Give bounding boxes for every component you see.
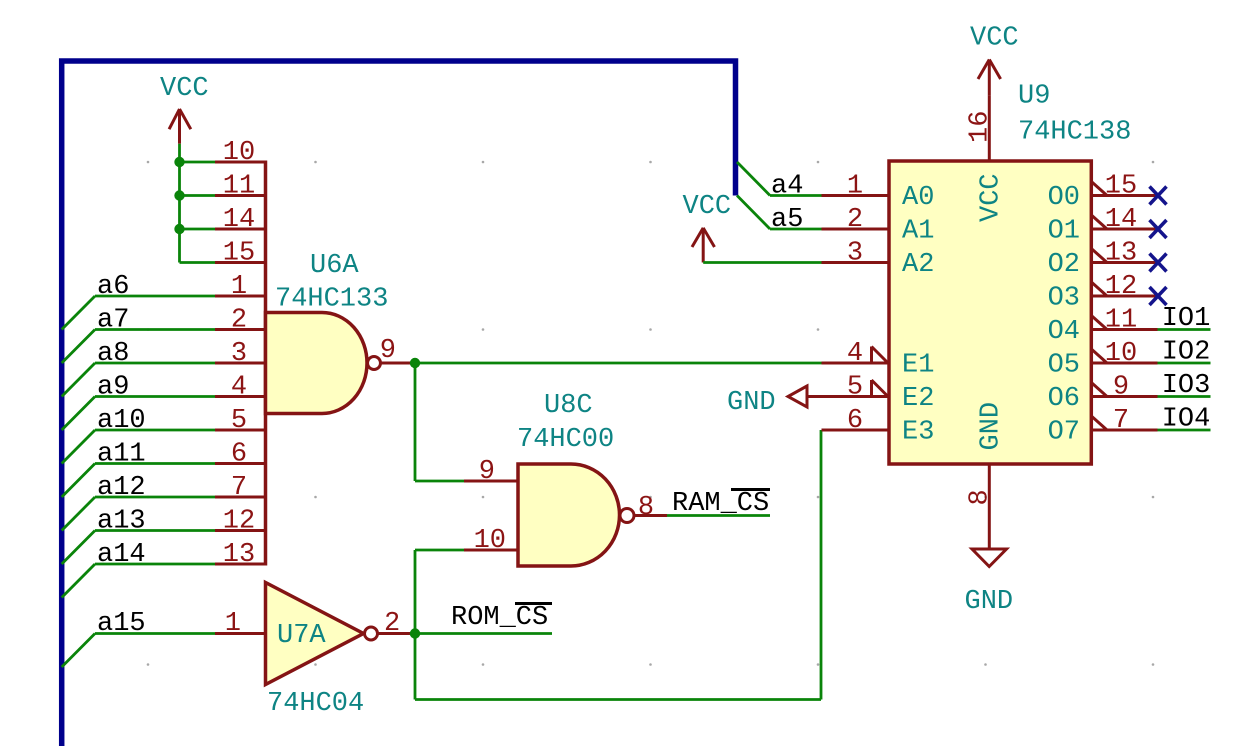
power symbol VCC (U6A tie-high)	[169, 109, 191, 144]
svg-text:4: 4	[231, 373, 247, 403]
svg-text:13: 13	[223, 540, 255, 570]
wire IO4	[1158, 429, 1211, 432]
U9 pin 2 (A1)	[822, 228, 890, 231]
U6A pin 11	[215, 194, 266, 197]
wire a11 horizontal	[95, 462, 215, 465]
wire into U8C pin 9	[415, 480, 464, 483]
inverter U7A 74HC04 body	[266, 583, 364, 685]
svg-text:12: 12	[223, 507, 255, 537]
wire U8C pin10 stub	[415, 549, 464, 552]
svg-text:a14: a14	[97, 540, 146, 570]
svg-text:1: 1	[225, 609, 241, 639]
power symbol GND (U9 pin8)	[972, 549, 1007, 567]
output-low wedge on O5	[1091, 349, 1107, 363]
svg-text:2: 2	[231, 306, 247, 336]
svg-text:IO1: IO1	[1162, 304, 1211, 334]
U9 pin 5 (E2)	[822, 395, 890, 398]
svg-text:7: 7	[1113, 406, 1129, 436]
output-low wedge on O2	[1091, 249, 1107, 263]
svg-text:a13: a13	[97, 507, 146, 537]
U9 pin 13 (O2)	[1091, 261, 1157, 264]
wire down to U8C input 9	[414, 363, 417, 481]
svg-text:13: 13	[1105, 239, 1137, 269]
wire a5 bus entry diagonal	[737, 196, 770, 230]
svg-text:a6: a6	[97, 272, 129, 302]
overline over CS of RAM_CS	[731, 488, 770, 491]
wire a12 horizontal	[95, 496, 215, 499]
U9 pin 10 (O5)	[1091, 362, 1157, 365]
U8C pin 10	[464, 549, 518, 552]
svg-text:1: 1	[231, 272, 247, 302]
U9 pin 16 (VCC)	[988, 96, 991, 161]
junction (ROM_CS node)	[410, 628, 420, 638]
U6A pin 12	[215, 529, 266, 532]
svg-text:A2: A2	[902, 250, 934, 280]
svg-text:ROM_CS: ROM_CS	[451, 603, 548, 633]
wire a8 bus entry diagonal	[62, 363, 95, 397]
output-low wedge on O7	[1091, 416, 1107, 430]
wire VCC stub row 2	[180, 228, 216, 231]
U9 pin 14 (O1)	[1091, 228, 1157, 231]
svg-text:U8C: U8C	[544, 391, 593, 421]
wire VCC stub row 0	[180, 161, 216, 164]
U9 pin 15 (O0)	[1091, 194, 1157, 197]
wire a14 horizontal	[95, 563, 215, 566]
U9 pin 4 (E1)	[822, 362, 890, 365]
wire a10 horizontal	[95, 429, 215, 432]
wire a4 horizontal	[770, 194, 822, 197]
wire U6A output to U9 E1	[415, 362, 822, 365]
wire ROM_CS	[415, 632, 552, 635]
U9 pin 8 (GND)	[988, 464, 991, 549]
U8C pin 9	[464, 480, 518, 483]
svg-text:E2: E2	[902, 384, 934, 414]
wire RAM_CS	[667, 514, 770, 517]
svg-text:a7: a7	[97, 306, 129, 336]
svg-text:GND: GND	[977, 402, 1007, 451]
svg-text:E3: E3	[902, 418, 934, 448]
svg-text:VCC: VCC	[970, 23, 1019, 53]
svg-text:GND: GND	[727, 388, 776, 418]
U9 pin 3 (A2)	[822, 261, 890, 264]
svg-text:U7A: U7A	[277, 621, 326, 651]
svg-text:O5: O5	[1048, 351, 1080, 381]
U9 pin 11 (O4)	[1091, 328, 1157, 331]
svg-text:11: 11	[223, 172, 255, 202]
power symbol GND (E2)	[788, 386, 807, 407]
svg-text:a11: a11	[97, 440, 146, 470]
svg-text:8: 8	[966, 489, 996, 505]
wire a15 bus entry diagonal	[62, 634, 95, 668]
svg-text:a10: a10	[97, 406, 146, 436]
wire a6 bus entry diagonal	[62, 296, 95, 330]
wire a9 horizontal	[95, 395, 215, 398]
svg-text:3: 3	[847, 239, 863, 269]
svg-text:7: 7	[231, 473, 247, 503]
svg-text:a15: a15	[97, 609, 146, 639]
svg-text:a8: a8	[97, 339, 129, 369]
output-low wedge on O0	[1091, 182, 1107, 196]
wire a11 bus entry diagonal	[62, 464, 95, 498]
svg-text:6: 6	[847, 406, 863, 436]
U6A output pin 9	[381, 362, 416, 365]
U6A pin 7	[215, 496, 266, 499]
svg-text:10: 10	[474, 526, 506, 556]
wire a6 horizontal	[95, 295, 215, 298]
wire a7 bus entry diagonal	[62, 330, 95, 364]
bus (navy address bus outline)	[62, 61, 736, 746]
svg-text:A1: A1	[902, 217, 934, 247]
svg-text:O0: O0	[1048, 183, 1080, 213]
svg-text:O3: O3	[1048, 284, 1080, 314]
svg-text:74HC133: 74HC133	[275, 285, 388, 315]
output-low wedge on O4	[1091, 316, 1107, 330]
svg-text:14: 14	[1105, 205, 1137, 235]
U6A pin 15	[215, 261, 266, 264]
svg-text:2: 2	[384, 609, 400, 639]
ic U9 74HC138 body	[889, 161, 1091, 464]
U6A pin 1	[215, 295, 266, 298]
U9 pin 7 (O7)	[1091, 429, 1157, 432]
svg-text:74HC00: 74HC00	[517, 425, 614, 455]
U8C output pin 8	[635, 514, 668, 517]
U8C output bubble	[620, 509, 634, 523]
output-low wedge on O1	[1091, 215, 1107, 229]
junction (VCC feed y=195.5)	[174, 190, 184, 200]
U6A pin 4	[215, 395, 266, 398]
U9 pin 6 (E3)	[822, 429, 890, 432]
svg-text:O7: O7	[1048, 418, 1080, 448]
wire IO2	[1158, 362, 1211, 365]
svg-text:E1: E1	[902, 351, 934, 381]
U6A pin 2	[215, 328, 266, 331]
svg-text:IO3: IO3	[1162, 371, 1211, 401]
svg-text:2: 2	[847, 205, 863, 235]
svg-text:5: 5	[847, 373, 863, 403]
svg-text:15: 15	[1105, 172, 1137, 202]
svg-text:A0: A0	[902, 183, 934, 213]
svg-text:74HC138: 74HC138	[1018, 117, 1131, 147]
no-connect X on pin 15	[1150, 187, 1167, 205]
wire IO1	[1158, 328, 1211, 331]
nand-gate U6A 74HC133 body	[264, 161, 268, 566]
svg-text:U9: U9	[1018, 81, 1050, 111]
svg-text:a12: a12	[97, 473, 146, 503]
wire a13 horizontal	[95, 529, 215, 532]
svg-text:9: 9	[1113, 373, 1129, 403]
junction (U6A output node)	[410, 358, 420, 368]
U7A input pin 1	[215, 632, 266, 635]
U6A pin 5	[215, 429, 266, 432]
svg-text:RAM_CS: RAM_CS	[672, 489, 769, 519]
output-low wedge on O6	[1091, 383, 1107, 397]
svg-text:10: 10	[1105, 339, 1137, 369]
wire a12 bus entry diagonal	[62, 497, 95, 531]
power symbol VCC (A2)	[692, 228, 715, 263]
svg-text:GND: GND	[965, 587, 1014, 617]
U7A output bubble	[365, 627, 378, 640]
input-low wedge on E1	[872, 347, 889, 364]
svg-text:12: 12	[1105, 272, 1137, 302]
wire VCC stub row 3	[180, 261, 216, 264]
svg-text:16: 16	[966, 111, 996, 143]
svg-text:15: 15	[223, 239, 255, 269]
svg-text:IO2: IO2	[1162, 338, 1211, 368]
svg-text:10: 10	[223, 138, 255, 168]
wire VCC vertical feed	[178, 144, 181, 263]
wire VCC stub row 1	[180, 194, 216, 197]
wire a15 horizontal	[95, 632, 215, 635]
U9 pin 1 (A0)	[822, 194, 890, 197]
wire a4 bus entry diagonal	[737, 162, 770, 196]
svg-text:11: 11	[1105, 306, 1137, 336]
U7A output pin 2	[378, 632, 416, 635]
U9 pin 9 (O6)	[1091, 395, 1157, 398]
junction (VCC feed y=229.0)	[174, 224, 184, 234]
U6A pin 6	[215, 462, 266, 465]
svg-text:8: 8	[638, 493, 654, 523]
svg-text:3: 3	[231, 339, 247, 369]
U6A pin 10	[215, 161, 266, 164]
svg-text:O1: O1	[1048, 217, 1080, 247]
U6A pin 3	[215, 362, 266, 365]
no-connect X on pin 14	[1150, 220, 1167, 238]
output-low wedge on O3	[1091, 282, 1107, 296]
no-connect X on pin 13	[1150, 254, 1167, 272]
svg-text:O6: O6	[1048, 384, 1080, 414]
svg-text:a9: a9	[97, 373, 129, 403]
svg-text:VCC: VCC	[977, 173, 1007, 222]
wire a7 horizontal	[95, 328, 215, 331]
svg-text:6: 6	[231, 440, 247, 470]
svg-text:U6A: U6A	[310, 251, 359, 281]
svg-text:9: 9	[479, 457, 495, 487]
U6A output bubble	[368, 357, 381, 370]
svg-text:4: 4	[847, 339, 863, 369]
wire a9 bus entry diagonal	[62, 397, 95, 431]
overline over CS of ROM_CS	[515, 602, 552, 605]
svg-text:74HC04: 74HC04	[267, 689, 364, 719]
svg-text:1: 1	[847, 172, 863, 202]
wire a5 horizontal	[770, 228, 822, 231]
svg-text:5: 5	[231, 406, 247, 436]
svg-text:14: 14	[223, 205, 255, 235]
U6A pin 13	[215, 563, 266, 566]
U9 pin 12 (O3)	[1091, 295, 1157, 298]
svg-text:VCC: VCC	[683, 192, 732, 222]
wire IO3	[1158, 395, 1211, 398]
input-low wedge on E2	[872, 380, 889, 397]
wire feedback up to E3	[820, 430, 823, 700]
svg-text:O2: O2	[1048, 250, 1080, 280]
svg-text:a5: a5	[771, 205, 803, 235]
svg-text:VCC: VCC	[160, 74, 209, 104]
svg-text:IO4: IO4	[1162, 405, 1211, 435]
nand-gate U8C 74HC00 body	[518, 464, 620, 566]
svg-text:9: 9	[380, 336, 396, 366]
wire feedback bottom horizontal	[415, 698, 821, 701]
wire a14 bus entry diagonal	[62, 564, 95, 598]
U6A pin 14	[215, 228, 266, 231]
junction (VCC feed y=162.0)	[174, 157, 184, 167]
wire a8 horizontal	[95, 362, 215, 365]
svg-text:O4: O4	[1048, 317, 1080, 347]
power symbol VCC (U9 pin16)	[978, 60, 1001, 96]
wire VCC to A2	[703, 261, 821, 264]
wire vertical ROM_CS node	[414, 550, 417, 700]
wire a13 bus entry diagonal	[62, 531, 95, 565]
no-connect X on pin 12	[1150, 287, 1167, 305]
wire a10 bus entry diagonal	[62, 430, 95, 464]
svg-text:a4: a4	[771, 172, 803, 202]
